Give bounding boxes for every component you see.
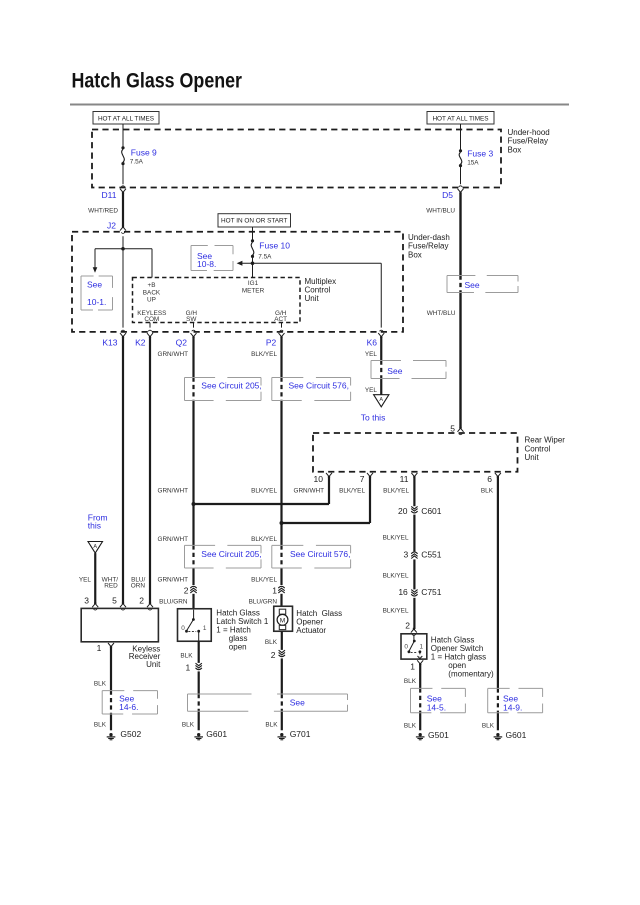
svg-text:P2: P2 xyxy=(266,337,277,347)
see reference box 10-8 xyxy=(191,246,233,271)
svg-text:J2: J2 xyxy=(107,220,116,230)
wire J2 to K13 inside box xyxy=(122,236,124,327)
svg-text:11: 11 xyxy=(400,474,409,484)
svg-text:Box: Box xyxy=(408,251,422,260)
svg-text:YEL: YEL xyxy=(365,351,378,358)
connector K2 xyxy=(135,330,153,347)
fuse F3 xyxy=(459,148,494,167)
svg-text:2: 2 xyxy=(271,650,276,660)
svg-text:C751: C751 xyxy=(421,587,442,597)
triangle marker A (from) xyxy=(88,542,103,554)
svg-text:GRN/WHT: GRN/WHT xyxy=(157,488,188,495)
see circuit 576 reference box upper xyxy=(272,378,351,401)
svg-text:BLK/YEL: BLK/YEL xyxy=(383,535,409,542)
wire pin 11 BLK/YEL segment 1 xyxy=(383,476,414,506)
svg-text:20: 20 xyxy=(398,506,408,516)
connector D11 xyxy=(102,186,126,200)
svg-text:GRN/WHT: GRN/WHT xyxy=(293,488,324,495)
svg-text:BLK: BLK xyxy=(182,721,195,728)
ground G501 xyxy=(416,730,449,740)
wire hot to fuse 9 xyxy=(122,124,124,147)
svg-text:3: 3 xyxy=(84,596,89,606)
svg-text:COM: COM xyxy=(144,316,159,323)
wire BLK/YEL segment 2 xyxy=(383,515,415,552)
svg-text:1: 1 xyxy=(272,585,277,595)
svg-text:G502: G502 xyxy=(120,729,141,739)
svg-text:BLU/GRN: BLU/GRN xyxy=(159,598,188,605)
svg-text:BLK: BLK xyxy=(265,639,278,646)
svg-text:WHT/BLU: WHT/BLU xyxy=(426,207,455,214)
connector 2 on latch switch wire xyxy=(184,585,197,595)
connector C601 xyxy=(398,506,442,516)
svg-text:See Circuit 576,: See Circuit 576, xyxy=(290,549,350,559)
wire K6 YEL to triangle A xyxy=(365,337,381,395)
svg-text:Box: Box xyxy=(508,145,522,154)
svg-text:BLK: BLK xyxy=(265,721,278,728)
svg-text:Unit: Unit xyxy=(305,294,320,303)
svg-text:WHT/RED: WHT/RED xyxy=(88,207,118,214)
svg-text:(momentary): (momentary) xyxy=(448,669,494,678)
wire fuse10 to IG1 METER xyxy=(252,263,254,277)
label HOT IN ON OR START xyxy=(218,214,291,227)
wire BLK/YEL segment 4 xyxy=(383,598,415,629)
wire G/H ACT to P2 xyxy=(281,323,283,328)
svg-text:G501: G501 xyxy=(428,730,449,740)
svg-text:Under-hood: Under-hood xyxy=(508,128,550,137)
rear wiper control unit box xyxy=(313,433,518,472)
svg-text:C551: C551 xyxy=(421,550,442,560)
keyless receiver unit box xyxy=(81,608,158,641)
svg-text:See: See xyxy=(290,698,305,708)
connector K6 xyxy=(367,330,385,347)
svg-text:See Circuit 205,: See Circuit 205, xyxy=(201,549,261,559)
actuator label xyxy=(296,609,342,635)
svg-text:To this: To this xyxy=(361,413,386,423)
see reference box wide (G601/G701) xyxy=(188,694,348,711)
svg-text:YEL: YEL xyxy=(365,387,378,394)
svg-text:0: 0 xyxy=(181,625,185,632)
wire opener switch BLK to G501 xyxy=(404,664,420,731)
svg-text:HOT IN ON OR START: HOT IN ON OR START xyxy=(221,218,287,225)
svg-text:See Circuit 205,: See Circuit 205, xyxy=(201,381,261,391)
svg-text:Actuator: Actuator xyxy=(296,626,326,635)
svg-text:BACK: BACK xyxy=(143,289,161,296)
switch S2 hatch glass opener switch xyxy=(401,634,427,659)
ground G502 xyxy=(107,729,142,740)
svg-text:2: 2 xyxy=(139,596,144,606)
see reference box 14-6 xyxy=(102,691,157,714)
svg-text:10-1.: 10-1. xyxy=(87,297,106,307)
opener switch label xyxy=(431,635,494,678)
svg-text:YEL: YEL xyxy=(79,577,92,584)
switch S1 hatch glass latch switch xyxy=(178,609,212,642)
svg-text:Q2: Q2 xyxy=(176,337,188,347)
multiplex unit label xyxy=(305,277,337,303)
see reference box 14-5 xyxy=(411,688,466,712)
connector pin 1 opener switch xyxy=(410,660,423,671)
wire KEYLESS COM to K2 xyxy=(149,323,151,328)
label BLU/ORN keyless xyxy=(131,577,146,590)
svg-text:10-8.: 10-8. xyxy=(197,259,216,269)
svg-text:D5: D5 xyxy=(442,190,453,200)
svg-text:14-9.: 14-9. xyxy=(503,703,522,713)
svg-text:SW: SW xyxy=(186,316,197,323)
svg-text:1: 1 xyxy=(185,663,190,673)
connector 1 on actuator wire xyxy=(272,585,284,595)
wire hot to fuse 3 xyxy=(460,124,462,150)
pin label G/H SW xyxy=(186,310,198,323)
pin label +B BACK UP xyxy=(143,282,161,303)
svg-text:+B: +B xyxy=(148,282,156,289)
wire fuse 3 to D5 xyxy=(460,167,462,184)
node junction Q2/rear-wiper-10 xyxy=(192,502,196,506)
wire D5 WHT/BLU to rear wiper pin 5 xyxy=(426,193,460,428)
svg-text:6: 6 xyxy=(487,474,492,484)
wire Q2 GRN/WHT down to latch switch xyxy=(157,337,193,585)
fuse F10 xyxy=(251,239,290,260)
svg-text:3: 3 xyxy=(403,550,408,560)
pin label KEYLESS COM xyxy=(137,310,166,323)
wire keyless BLK to G502 xyxy=(94,647,111,731)
svg-text:See: See xyxy=(87,279,102,289)
wire pin 10 GRN/WHT to junction xyxy=(194,476,330,504)
under-dash fuse/relay box xyxy=(72,232,403,332)
wire triangle to keyless pin 3 YEL xyxy=(79,553,95,604)
see circuit 205 reference box lower xyxy=(185,545,262,568)
svg-text:1: 1 xyxy=(410,661,415,671)
svg-text:G601: G601 xyxy=(506,730,527,740)
svg-text:ACT: ACT xyxy=(274,316,287,323)
wire fuse 9 to D11 xyxy=(122,165,124,184)
label WHT/BLU mid xyxy=(427,310,456,317)
wire latch switch BLK segment xyxy=(180,641,198,663)
svg-text:GRN/WHT: GRN/WHT xyxy=(157,576,188,583)
connector D5 xyxy=(442,186,463,200)
svg-text:BLK: BLK xyxy=(94,721,107,728)
svg-text:14-6.: 14-6. xyxy=(119,702,138,712)
svg-text:BLK: BLK xyxy=(94,680,107,687)
svg-text:Unit: Unit xyxy=(146,660,161,669)
connector pin 10 xyxy=(314,473,332,484)
wire D11 to J2 WHT/RED xyxy=(88,193,123,226)
wire actuator BLK segment xyxy=(265,631,282,650)
svg-text:BLK/YEL: BLK/YEL xyxy=(251,488,277,495)
triangle marker A (to) xyxy=(374,395,389,407)
wire junction arrow to see 10-8 and K6 xyxy=(237,261,382,328)
pin label G/H ACT xyxy=(274,310,287,323)
wire K2 BLU/ORN to keyless pin 2 xyxy=(149,337,151,604)
see circuit 205 reference box upper xyxy=(185,378,262,401)
connector Q2 xyxy=(176,330,197,347)
label HOT AT ALL TIMES (left) xyxy=(93,112,159,125)
ground G601 right xyxy=(494,730,527,740)
svg-text:BLK/YEL: BLK/YEL xyxy=(383,608,409,615)
svg-text:See: See xyxy=(387,366,402,376)
wire actuator to G701 xyxy=(265,658,281,730)
svg-text:open: open xyxy=(229,643,247,652)
connector pin 5 rear wiper xyxy=(450,424,463,435)
svg-text:Fuse/Relay: Fuse/Relay xyxy=(508,137,548,146)
wire hot-in-on to fuse 10 xyxy=(252,227,254,240)
connector pin 5 keyless xyxy=(112,596,126,610)
svg-text:2: 2 xyxy=(184,585,189,595)
connector 1 latch switch xyxy=(185,663,201,673)
svg-text:1: 1 xyxy=(97,643,102,653)
svg-text:7.5A: 7.5A xyxy=(258,254,272,261)
pin label IG1 METER xyxy=(242,280,265,294)
svg-text:D11: D11 xyxy=(102,190,117,200)
connector C551 xyxy=(403,550,441,560)
svg-text:BLK: BLK xyxy=(404,723,417,730)
connector pin 1 keyless xyxy=(97,643,114,653)
svg-text:Fuse/Relay: Fuse/Relay xyxy=(408,242,448,251)
under-hood fuse/relay box xyxy=(92,130,501,188)
svg-text:0: 0 xyxy=(404,644,408,651)
svg-text:Fuse 3: Fuse 3 xyxy=(467,148,493,158)
node junction on K13 wire xyxy=(121,247,125,251)
wire P2 BLK/YEL down to actuator xyxy=(251,337,281,585)
svg-text:7: 7 xyxy=(360,474,365,484)
svg-text:A: A xyxy=(93,544,97,550)
wire BLU/GRN into actuator xyxy=(249,594,282,606)
svg-text:Unit: Unit xyxy=(525,453,540,462)
label HOT AT ALL TIMES (right) xyxy=(427,112,494,125)
connector K13 xyxy=(102,330,126,347)
connector J2 xyxy=(107,220,126,233)
keyless unit label xyxy=(129,644,161,669)
node junction P2/rear-wiper-7 xyxy=(280,521,284,525)
svg-text:Under-dash: Under-dash xyxy=(408,233,450,242)
wire branch to See 10-1 and +B xyxy=(93,249,152,278)
svg-text:K2: K2 xyxy=(135,337,146,347)
ground G701 xyxy=(278,729,311,740)
svg-text:K13: K13 xyxy=(102,337,117,347)
node junction fuse10 xyxy=(251,261,255,265)
wire BLU/GRN into latch switch xyxy=(159,594,193,609)
svg-text:this: this xyxy=(88,520,101,530)
latch switch label xyxy=(216,609,269,652)
svg-text:10: 10 xyxy=(314,474,324,484)
svg-text:BLU/GRN: BLU/GRN xyxy=(249,598,278,605)
svg-text:See Circuit 576,: See Circuit 576, xyxy=(289,381,349,391)
svg-text:BLK/YEL: BLK/YEL xyxy=(383,488,409,495)
see reference box 14-9 xyxy=(488,688,543,712)
wire pin 7 BLK/YEL to junction xyxy=(282,476,371,523)
svg-text:7.5A: 7.5A xyxy=(130,159,144,166)
svg-text:16: 16 xyxy=(398,587,408,597)
connector 2 actuator xyxy=(271,650,285,660)
connector C751 xyxy=(398,587,441,597)
svg-text:GRN/WHT: GRN/WHT xyxy=(157,351,188,358)
svg-text:GRN/WHT: GRN/WHT xyxy=(157,536,188,543)
svg-text:BLK/YEL: BLK/YEL xyxy=(383,573,409,580)
connector pin 3 keyless xyxy=(84,596,98,610)
svg-text:15A: 15A xyxy=(467,160,479,167)
svg-text:BLK: BLK xyxy=(180,652,193,659)
multiplex control unit box xyxy=(133,278,301,323)
fuse F9 xyxy=(121,146,157,165)
wire latch switch to G601 xyxy=(182,671,199,730)
rear wiper unit label xyxy=(525,436,566,463)
svg-text:BLK: BLK xyxy=(482,723,495,730)
see circuit 576 reference box lower xyxy=(272,545,351,568)
connector pin 7 xyxy=(360,473,373,484)
wire G/H SW to Q2 xyxy=(193,323,195,328)
wire pin 6 BLK to G601 xyxy=(481,476,498,730)
svg-text:BLK: BLK xyxy=(481,488,494,495)
svg-text:Control: Control xyxy=(525,444,551,453)
title rule xyxy=(70,104,569,106)
svg-text:G701: G701 xyxy=(290,729,311,739)
connector pin 2 opener switch xyxy=(405,621,417,636)
svg-text:Hatch Glass Opener: Hatch Glass Opener xyxy=(72,69,243,92)
label WHT/RED keyless xyxy=(102,577,119,590)
svg-text:HOT AT ALL TIMES: HOT AT ALL TIMES xyxy=(432,115,488,122)
svg-text:M: M xyxy=(280,617,286,624)
svg-text:Fuse 9: Fuse 9 xyxy=(131,148,157,158)
see reference box on K6 wire xyxy=(371,361,446,379)
under-dash box label xyxy=(408,233,450,260)
svg-text:Rear Wiper: Rear Wiper xyxy=(525,436,566,445)
svg-text:A: A xyxy=(379,397,383,403)
connector pin 2 keyless xyxy=(139,596,153,610)
svg-text:METER: METER xyxy=(242,288,265,295)
connector P2 xyxy=(266,330,285,347)
svg-text:BLK/YEL: BLK/YEL xyxy=(339,488,365,495)
svg-text:BLK: BLK xyxy=(404,678,417,685)
svg-text:BLK/YEL: BLK/YEL xyxy=(251,576,277,583)
svg-text:K6: K6 xyxy=(367,337,378,347)
svg-text:ORN: ORN xyxy=(131,582,146,589)
connector pin 11 xyxy=(400,473,418,484)
title text xyxy=(72,69,243,92)
svg-text:WHT/BLU: WHT/BLU xyxy=(427,310,456,317)
svg-text:BLK/YEL: BLK/YEL xyxy=(251,351,277,358)
svg-text:G601: G601 xyxy=(206,729,227,739)
wire K13 WHT/RED to keyless pin 5 xyxy=(122,337,124,604)
svg-text:HOT AT ALL TIMES: HOT AT ALL TIMES xyxy=(98,115,154,122)
svg-text:5: 5 xyxy=(112,596,117,606)
svg-text:UP: UP xyxy=(147,297,156,304)
label From this xyxy=(88,513,108,531)
wire fuse 10 to junction xyxy=(252,258,254,263)
see reference box 10-1 xyxy=(81,276,113,310)
under-hood box label xyxy=(508,128,550,155)
svg-text:1: 1 xyxy=(203,625,207,632)
connector pin 6 xyxy=(487,473,501,484)
wire BLK/YEL segment 3 xyxy=(383,559,415,589)
svg-text:RED: RED xyxy=(104,582,118,589)
svg-text:1: 1 xyxy=(420,644,424,651)
svg-text:Fuse 10: Fuse 10 xyxy=(259,240,290,250)
svg-text:BLK/YEL: BLK/YEL xyxy=(251,536,277,543)
svg-text:IG1: IG1 xyxy=(248,280,259,287)
label To this xyxy=(361,413,386,423)
motor M1 hatch glass opener actuator xyxy=(274,606,293,631)
see reference box on WHT/BLU wire xyxy=(447,276,518,293)
svg-text:See: See xyxy=(465,280,480,290)
svg-text:C601: C601 xyxy=(421,506,442,516)
svg-text:2: 2 xyxy=(405,621,410,631)
ground G601 left xyxy=(194,729,227,740)
svg-text:14-5.: 14-5. xyxy=(427,703,446,713)
